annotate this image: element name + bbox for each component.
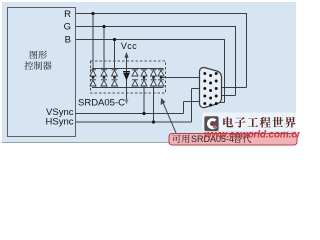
svg-text:R: R [64, 9, 71, 20]
svg-text:B: B [65, 34, 71, 45]
svg-text:HSync: HSync [46, 116, 74, 127]
svg-text:SRDA05-C: SRDA05-C [78, 98, 125, 109]
svg-text:www.eeworld.com.cn: www.eeworld.com.cn [204, 129, 300, 140]
svg-text:G: G [64, 21, 71, 32]
svg-text:Vcc: Vcc [121, 41, 137, 51]
